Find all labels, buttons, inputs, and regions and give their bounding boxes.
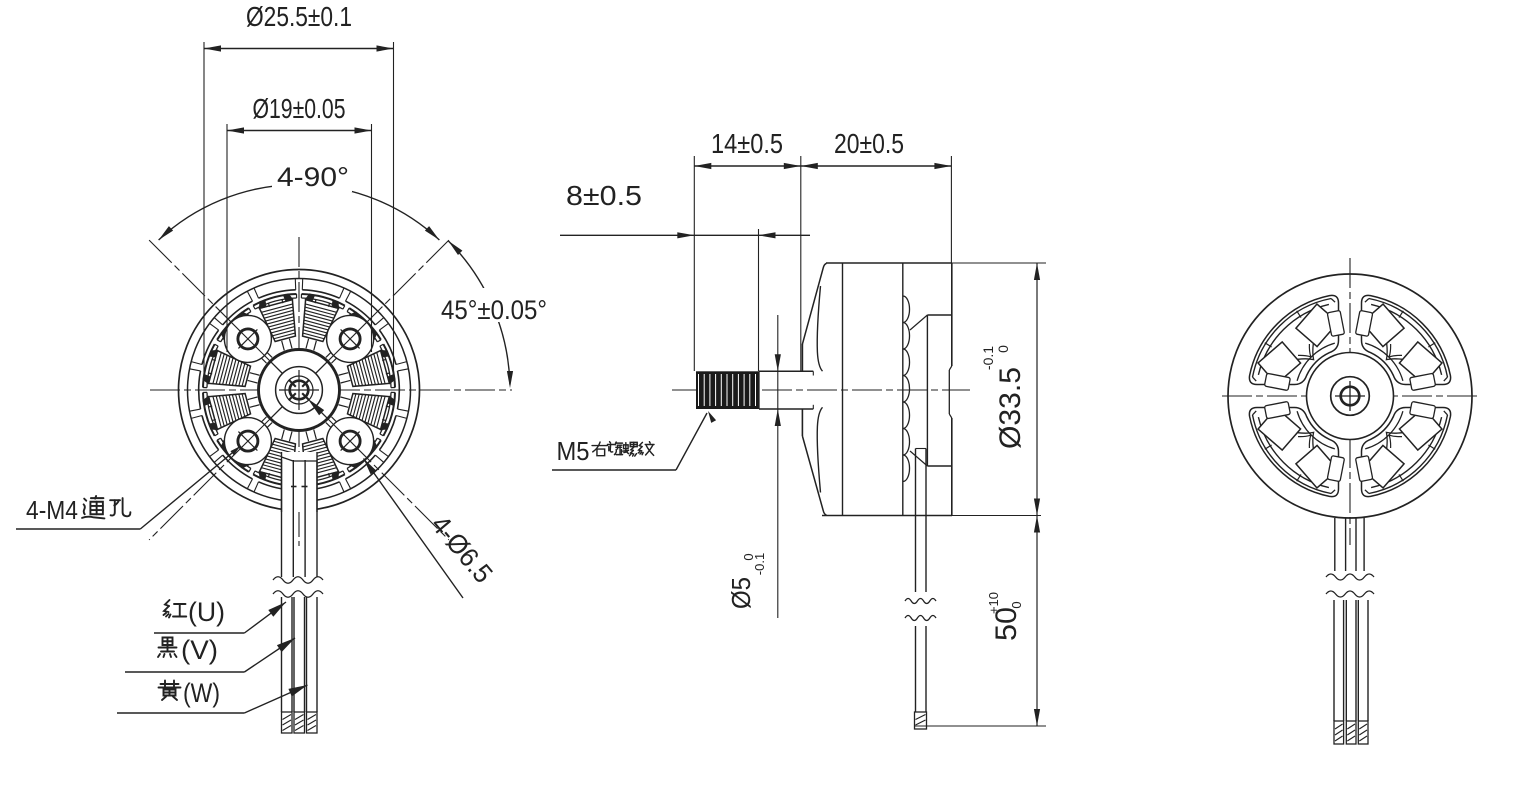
svg-text:4-M4: 4-M4: [26, 495, 78, 525]
svg-text:Ø5: Ø5: [726, 577, 756, 609]
svg-text:14±0.5: 14±0.5: [711, 128, 783, 159]
svg-text:Ø33.5: Ø33.5: [994, 367, 1027, 449]
svg-text:8±0.5: 8±0.5: [566, 180, 642, 211]
svg-text:20±0.5: 20±0.5: [834, 128, 904, 159]
svg-text:45°±0.05°: 45°±0.05°: [441, 295, 547, 325]
svg-text:Ø19±0.05: Ø19±0.05: [253, 93, 346, 124]
svg-text:-0.1: -0.1: [980, 346, 996, 370]
svg-text:0: 0: [1009, 601, 1024, 608]
svg-text:(V): (V): [181, 635, 218, 665]
svg-text:M5: M5: [557, 436, 590, 466]
svg-text:-0.1: -0.1: [752, 553, 767, 575]
svg-text:(W): (W): [183, 678, 220, 708]
svg-text:0: 0: [995, 345, 1011, 353]
svg-text:+10: +10: [986, 592, 1001, 614]
svg-text:Ø25.5±0.1: Ø25.5±0.1: [246, 1, 352, 32]
svg-text:4-90°: 4-90°: [277, 162, 349, 192]
svg-text:(U): (U): [188, 597, 225, 627]
